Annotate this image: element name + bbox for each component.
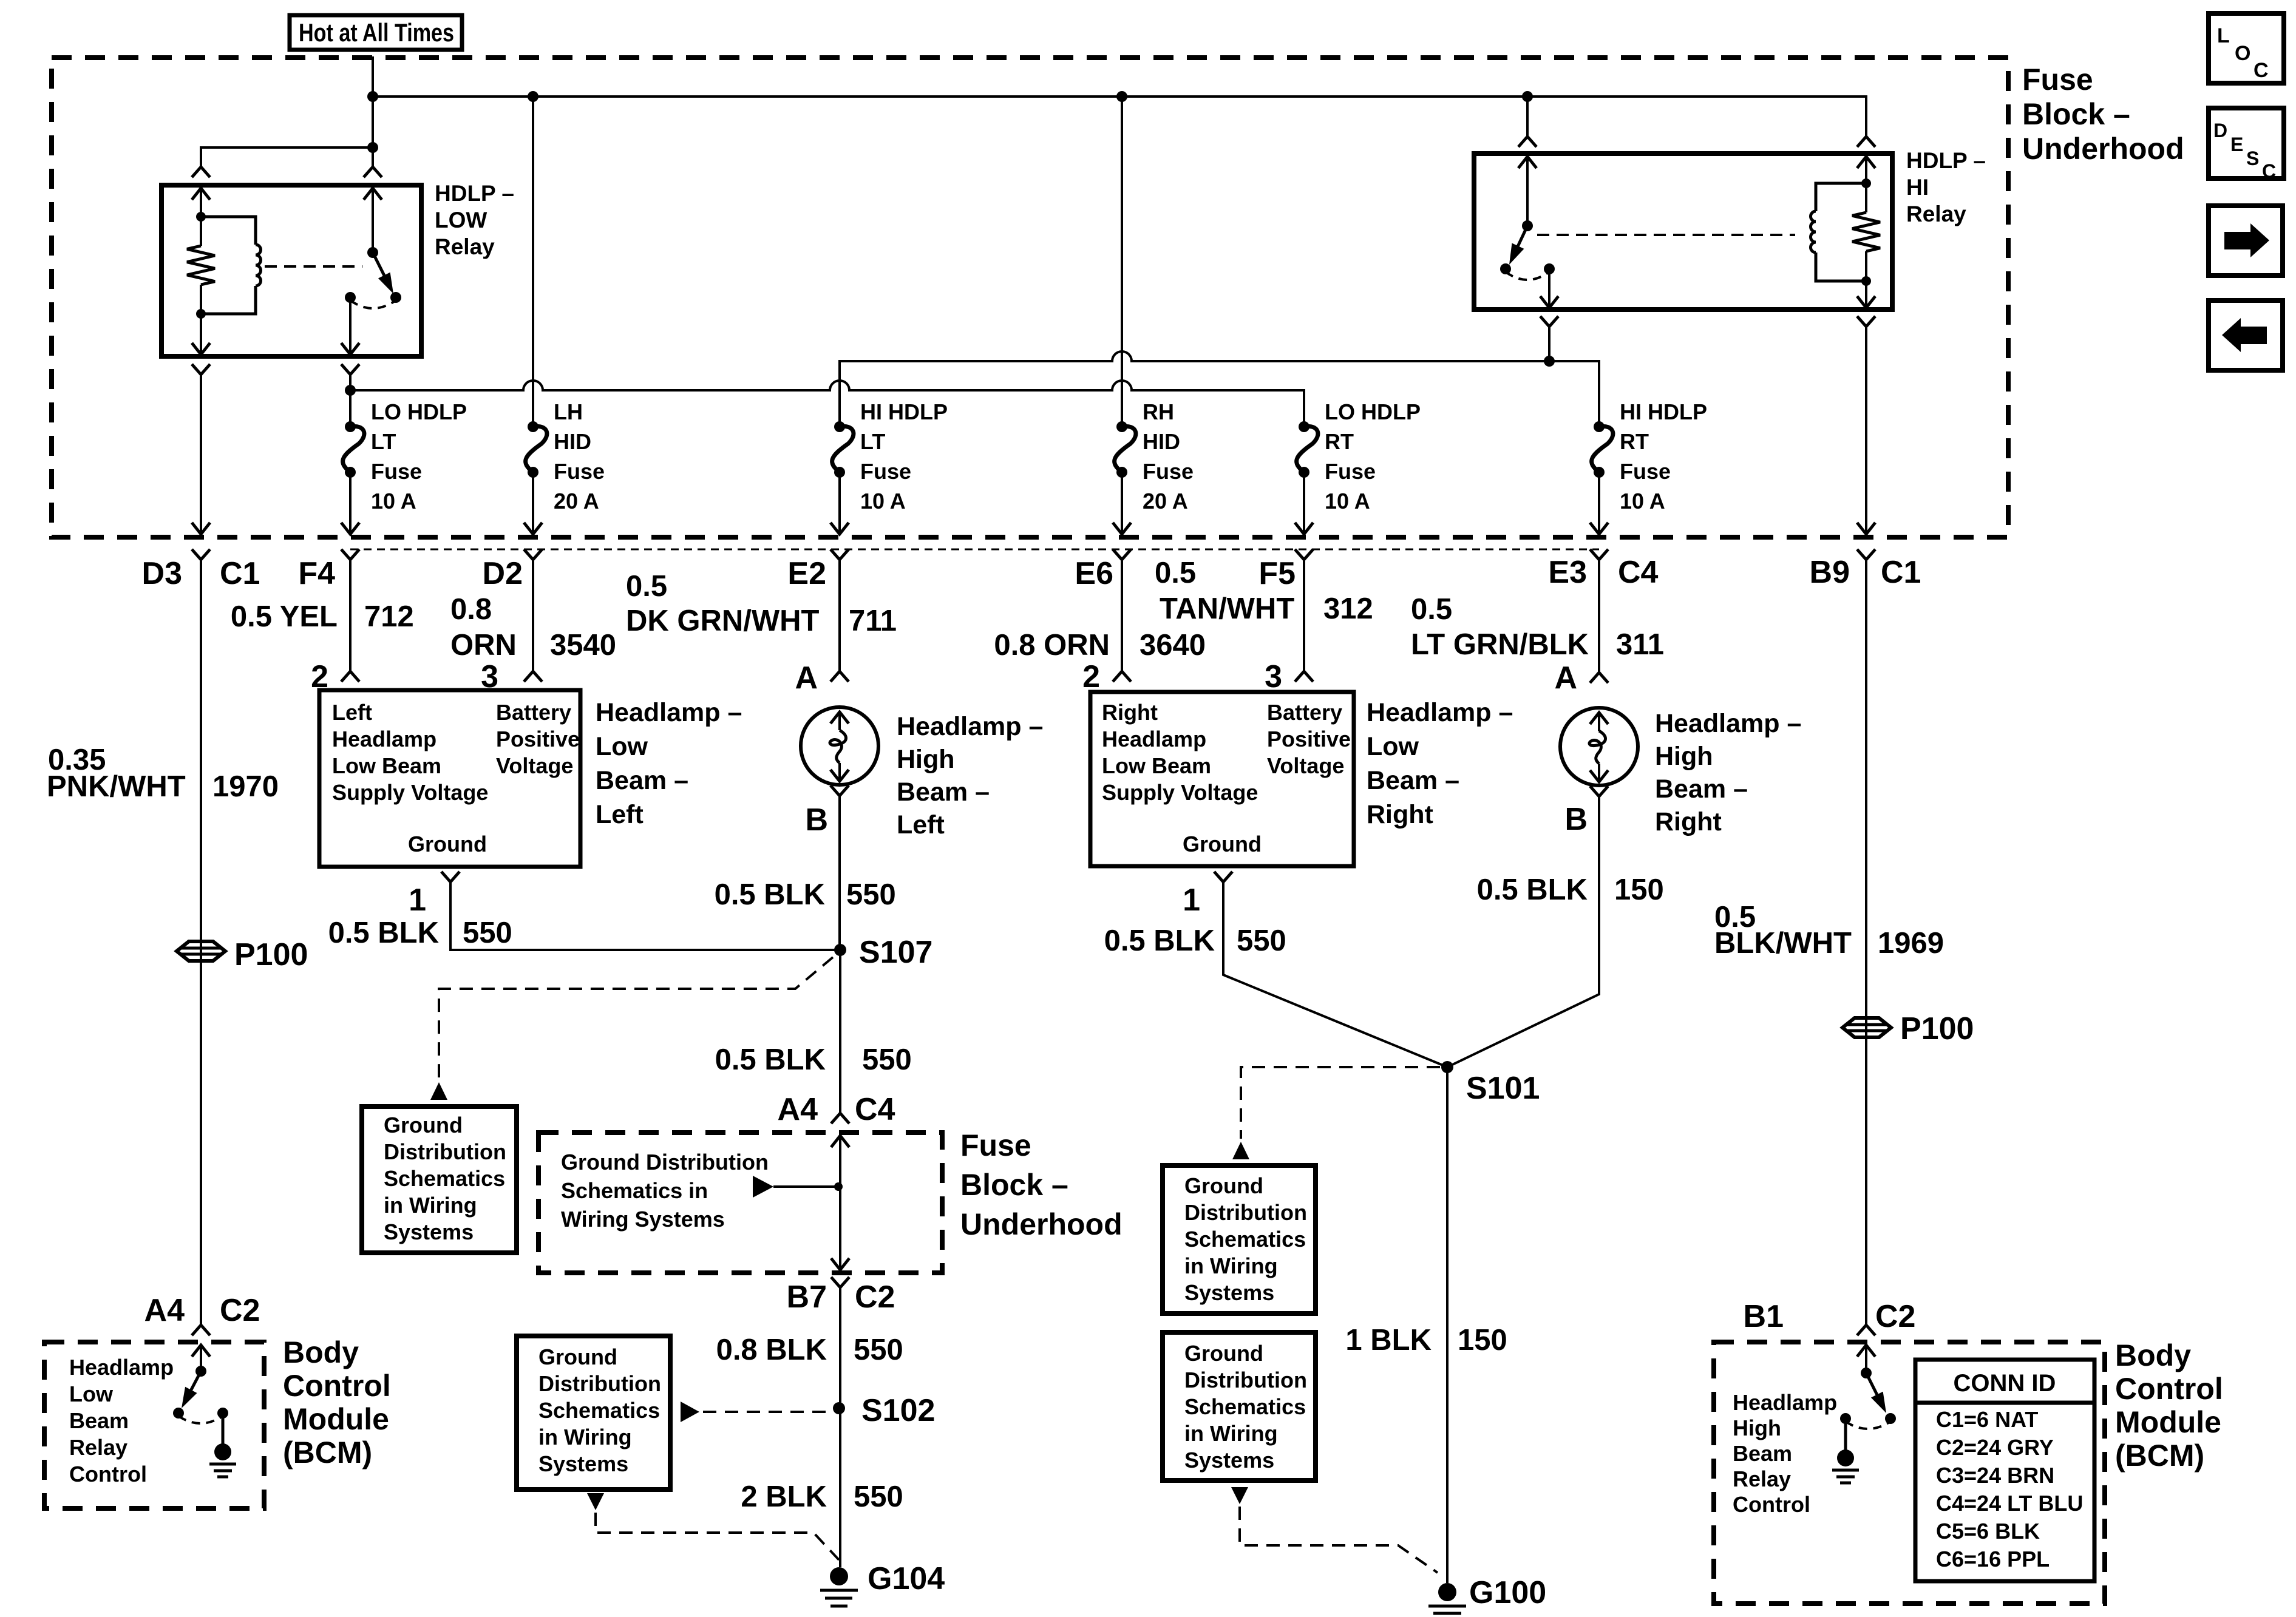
fuse: RH HID Fuse 20 A <box>1116 421 1127 432</box>
svg-text:Control: Control <box>283 1369 391 1403</box>
svg-text:Ground: Ground <box>408 832 487 856</box>
svg-text:Beam –: Beam – <box>596 766 688 795</box>
svg-text:C2: C2 <box>855 1280 895 1315</box>
svg-text:Relay: Relay <box>69 1435 127 1460</box>
splice S102 <box>833 1402 845 1414</box>
note box: Ground Distribution Schematics in Wiring Systems (G100) <box>1163 1332 1316 1480</box>
svg-text:A4: A4 <box>778 1092 818 1127</box>
svg-text:0.5 BLK: 0.5 BLK <box>1104 924 1215 957</box>
wire: E6 column to right headlamp pin 2 <box>1121 560 1123 671</box>
svg-text:1: 1 <box>409 883 426 918</box>
connector: left headlamp pin 2 <box>341 671 359 682</box>
node: feed junction to LH HID fuse <box>528 91 538 102</box>
label: Body Control Module (BCM) right <box>2115 1338 2223 1473</box>
lamp: Headlamp - High Beam - Left bulb <box>801 707 878 785</box>
svg-text:in Wiring: in Wiring <box>1184 1421 1278 1446</box>
svg-text:Schematics in: Schematics in <box>561 1178 708 1203</box>
svg-text:S102: S102 <box>861 1393 935 1428</box>
svg-text:0.5 BLK: 0.5 BLK <box>328 917 439 949</box>
svg-text:550: 550 <box>846 878 896 911</box>
svg-text:Schematics: Schematics <box>1184 1227 1306 1252</box>
node: junction at branch <box>367 142 378 153</box>
svg-text:HID: HID <box>554 429 591 454</box>
svg-text:Headlamp –: Headlamp – <box>596 698 742 727</box>
wire: LO HDLP bus with hops over E2 and E6 columns <box>350 381 1304 427</box>
svg-text:Control: Control <box>1733 1492 1810 1517</box>
svg-text:Ground Distribution: Ground Distribution <box>561 1150 769 1175</box>
connector: lamp pin B (left) <box>830 785 849 796</box>
svg-text:0.8 BLK: 0.8 BLK <box>716 1334 827 1366</box>
dashed reference: S101 to ground distribution note <box>1241 1067 1440 1139</box>
connector fork: F4 <box>341 549 359 560</box>
svg-text:Positive: Positive <box>1267 727 1351 751</box>
svg-text:3: 3 <box>1265 659 1282 694</box>
svg-text:C4: C4 <box>1618 555 1659 590</box>
relay K2: switch pivot <box>1522 220 1533 231</box>
relay K2 label <box>1906 148 1986 226</box>
svg-text:D2: D2 <box>483 556 523 591</box>
relay K2: coil return lead <box>1865 281 1867 307</box>
svg-text:Fuse: Fuse <box>1325 459 1376 484</box>
relay K2: switch output lead <box>1548 269 1550 307</box>
svg-text:10 A: 10 A <box>1620 489 1665 514</box>
svg-text:Distribution: Distribution <box>538 1371 661 1396</box>
wire: LO HDLP LT fuse drop <box>349 390 352 427</box>
svg-text:Schematics: Schematics <box>1184 1394 1306 1419</box>
svg-text:G100: G100 <box>1469 1575 1546 1610</box>
connector: relay K2 coil pin (top) <box>1857 137 1875 147</box>
svg-text:Beam –: Beam – <box>897 778 990 807</box>
svg-text:D: D <box>2213 120 2227 141</box>
relay K2: switch contact NO <box>1500 263 1511 274</box>
connector fork: E3/C4 <box>1590 549 1608 560</box>
connector fork: B9/C1 <box>1857 549 1875 560</box>
connector: left headlamp pin 3 <box>524 671 542 682</box>
svg-text:CONN ID: CONN ID <box>1954 1370 2056 1397</box>
reference arrow to ground distribution box <box>430 1082 447 1100</box>
svg-text:0.5: 0.5 <box>1155 557 1196 589</box>
svg-text:Beam –: Beam – <box>1655 775 1748 804</box>
svg-text:P100: P100 <box>234 937 308 972</box>
node: HI HDLP bus junction <box>1544 356 1555 367</box>
svg-text:0.5 BLK: 0.5 BLK <box>1477 873 1588 906</box>
svg-text:Systems: Systems <box>538 1451 628 1476</box>
connector: A4/C4 into underhood block <box>831 1113 849 1124</box>
svg-text:in Wiring: in Wiring <box>1184 1253 1278 1278</box>
svg-text:HI: HI <box>1906 175 1929 200</box>
label: Headlamp - Low Beam - Left <box>596 698 742 829</box>
svg-text:C: C <box>2254 59 2269 82</box>
svg-text:Beam –: Beam – <box>1367 766 1459 795</box>
svg-text:C2: C2 <box>1875 1299 1915 1334</box>
note box: Ground Distribution Schematics in Wiring Systems (S101) <box>1163 1165 1316 1314</box>
connector fork: D2 <box>524 549 542 560</box>
svg-text:10 A: 10 A <box>1325 489 1370 514</box>
svg-text:G104: G104 <box>868 1561 945 1596</box>
svg-text:Body: Body <box>283 1335 359 1369</box>
box: Left Headlamp (low beam) <box>319 690 580 867</box>
wire: RH HID fuse drop from feed bus <box>1121 97 1123 427</box>
relay K2: coil <box>1816 183 1866 211</box>
connector: left headlamp ground pin 1 <box>441 872 460 882</box>
node: LO HDLP bus junction <box>345 385 356 396</box>
connector: relay K1 switch output (bottom) <box>341 364 359 375</box>
svg-text:Ground: Ground <box>384 1113 463 1137</box>
svg-text:Block –: Block – <box>2022 97 2130 131</box>
wire: relay K1 output to LO HDLP bus <box>349 375 352 390</box>
reference arrow to S102 <box>681 1402 699 1422</box>
fuse: HI HDLP RT Fuse 10 A <box>1594 421 1605 432</box>
connector: lamp pin A (left) <box>830 671 849 682</box>
svg-text:Module: Module <box>2115 1405 2221 1439</box>
left BCM: ground stem <box>222 1413 225 1445</box>
svg-text:Low: Low <box>1367 732 1419 761</box>
svg-text:Low Beam: Low Beam <box>1102 753 1211 778</box>
svg-text:B9: B9 <box>1810 555 1850 590</box>
wire: E2 column to left high-beam lamp pin A <box>838 560 841 671</box>
connector: relay K2 coil return (bottom) <box>1857 316 1875 327</box>
wire: relay K2 output to HI HDLP bus <box>1548 327 1550 361</box>
dashed box: Body Control Module (BCM) right <box>1714 1342 2105 1604</box>
wire: S107 to fuse block ground feed (ckt 550) <box>839 950 841 1113</box>
svg-text:Headlamp –: Headlamp – <box>897 712 1043 741</box>
connector: into left BCM <box>192 1325 210 1335</box>
relay K1: coil pin arrow (85) <box>192 188 210 200</box>
svg-text:3540: 3540 <box>550 629 616 662</box>
relay K1: switch output lead <box>349 297 352 354</box>
svg-text:1970: 1970 <box>212 770 279 803</box>
wire: main feed bus from Hot drop to HDLP-HI relay <box>373 97 1866 137</box>
svg-text:3640: 3640 <box>1140 629 1206 662</box>
reference arrow into ground bus <box>753 1176 773 1198</box>
right BCM: ground symbol <box>1837 1449 1854 1466</box>
svg-text:HDLP –: HDLP – <box>435 181 514 206</box>
svg-text:Underhood: Underhood <box>960 1207 1123 1241</box>
relay K1: coil <box>201 217 256 245</box>
label: Headlamp - Low Beam - Right <box>1367 698 1513 829</box>
svg-text:LOW: LOW <box>435 208 487 232</box>
svg-text:Low: Low <box>596 732 648 761</box>
svg-text:Fuse: Fuse <box>860 459 911 484</box>
fuse: HI HDLP LT Fuse 10 A <box>834 421 845 432</box>
svg-text:Control: Control <box>2115 1372 2223 1406</box>
svg-text:Right: Right <box>1102 700 1158 725</box>
svg-text:Fuse: Fuse <box>960 1128 1031 1162</box>
inline connector P100 (right) <box>1843 1018 1891 1037</box>
relay K2: actuation dashed link <box>1537 234 1795 236</box>
relay K1: coil top node <box>196 212 206 222</box>
svg-text:311: 311 <box>1616 628 1664 661</box>
svg-text:1: 1 <box>1183 883 1200 918</box>
svg-text:Body: Body <box>2115 1338 2191 1372</box>
svg-text:Low: Low <box>69 1381 114 1406</box>
connector: into right BCM <box>1857 1325 1875 1335</box>
svg-text:C1: C1 <box>1881 555 1921 590</box>
connector: HDLP-LOW relay coil pin (top) <box>192 167 210 177</box>
dashed reference: S107 to ground distribution note <box>439 957 833 1079</box>
svg-text:Hot at All Times: Hot at All Times <box>299 18 454 47</box>
svg-text:2 BLK: 2 BLK <box>741 1480 827 1513</box>
right BCM: contact (ground) <box>1840 1413 1851 1424</box>
relay K2: resistor <box>1865 183 1867 212</box>
node: feed junction at Hot drop <box>367 91 378 102</box>
svg-text:B7: B7 <box>787 1280 827 1315</box>
relay K1 label <box>435 181 514 259</box>
relay K2: HDLP - HI relay switch drop <box>1526 97 1529 137</box>
reference arrow below center box to G100 <box>1231 1487 1248 1504</box>
svg-text:Systems: Systems <box>1184 1448 1274 1473</box>
wire: right headlamp ground to S101 <box>1223 882 1447 1067</box>
connector: HDLP-LOW relay switch pin (top) <box>364 167 382 177</box>
relay K1: switch arm <box>373 253 386 280</box>
svg-text:712: 712 <box>364 600 414 633</box>
connector: right headlamp ground pin 1 <box>1214 872 1232 882</box>
relay K1: switch contact NC <box>345 292 356 303</box>
svg-text:Headlamp: Headlamp <box>332 727 436 751</box>
svg-text:Underhood: Underhood <box>2022 132 2184 166</box>
svg-text:HID: HID <box>1143 429 1180 454</box>
wire: F4 column to left headlamp pin 2 <box>349 560 352 671</box>
svg-text:in Wiring: in Wiring <box>538 1425 632 1449</box>
power label box: Hot at All Times <box>290 15 462 50</box>
svg-text:PNK/WHT: PNK/WHT <box>47 770 186 803</box>
svg-text:TAN/WHT: TAN/WHT <box>1160 592 1294 625</box>
svg-text:F4: F4 <box>298 556 335 591</box>
svg-text:1969: 1969 <box>1878 927 1944 960</box>
svg-text:LT: LT <box>371 429 396 454</box>
svg-text:Battery: Battery <box>496 700 571 725</box>
svg-text:LH: LH <box>554 399 583 424</box>
connector: right headlamp pin 3 <box>1295 671 1313 682</box>
svg-text:150: 150 <box>1614 873 1664 906</box>
svg-text:Right: Right <box>1655 807 1722 836</box>
svg-text:Headlamp: Headlamp <box>1102 727 1206 751</box>
wire: left high-beam lamp ground (ckt 550) to S107 <box>838 796 841 949</box>
svg-text:DK GRN/WHT: DK GRN/WHT <box>626 605 820 637</box>
svg-text:B1: B1 <box>1744 1299 1784 1334</box>
connector fork: E6 <box>1113 549 1131 560</box>
right BCM: pin function label <box>1733 1390 1837 1517</box>
connector fork: E2 <box>830 549 849 560</box>
svg-text:Right: Right <box>1367 800 1433 829</box>
svg-text:Systems: Systems <box>1184 1280 1274 1305</box>
left BCM: contact (ground) <box>217 1408 228 1419</box>
wire: relay K2 coil return down to block edge (ckt 1969) <box>1865 327 1867 534</box>
right BCM: ground stem <box>1844 1419 1847 1451</box>
connector: B7/C2 out of underhood block <box>831 1277 849 1287</box>
inline connector P100 (left) <box>177 941 225 961</box>
svg-text:Fuse: Fuse <box>1143 459 1194 484</box>
node: feed junction to HDLP-HI relay switch <box>1522 91 1533 102</box>
svg-text:(BCM): (BCM) <box>2115 1439 2204 1473</box>
svg-text:Relay: Relay <box>1733 1466 1791 1491</box>
svg-text:S107: S107 <box>859 935 932 970</box>
left BCM: ground symbol <box>214 1443 231 1460</box>
svg-text:HI HDLP: HI HDLP <box>1620 399 1707 424</box>
svg-text:S101: S101 <box>1466 1071 1540 1106</box>
right BCM: driver pivot <box>1861 1368 1872 1378</box>
connector: right headlamp pin 2 <box>1113 671 1131 682</box>
relay K1: coil bottom node <box>196 309 206 319</box>
svg-text:Battery: Battery <box>1267 700 1342 725</box>
label: Fuse Block - Underhood (lower) <box>960 1128 1123 1241</box>
wire: E3 column to right high-beam lamp pin A <box>1598 560 1600 673</box>
svg-text:Supply Voltage: Supply Voltage <box>1102 780 1258 805</box>
svg-text:10 A: 10 A <box>860 489 906 514</box>
svg-text:Fuse: Fuse <box>371 459 422 484</box>
wire: F5 column to right headlamp pin 3 <box>1303 560 1305 671</box>
nav icon: forward arrow box <box>2209 206 2283 276</box>
svg-text:550: 550 <box>862 1043 912 1076</box>
svg-text:LO HDLP: LO HDLP <box>371 399 467 424</box>
dashed box: Fuse Block - Underhood (ground bus) <box>538 1133 942 1273</box>
ground G104 <box>830 1567 848 1585</box>
svg-text:Fuse: Fuse <box>2022 63 2093 97</box>
connector: relay K2 switch output (bottom) <box>1540 316 1558 327</box>
svg-text:Headlamp –: Headlamp – <box>1655 709 1801 738</box>
relay K2: switch contact NC <box>1544 263 1555 274</box>
svg-text:Voltage: Voltage <box>1267 753 1344 778</box>
relay K2: HDLP - HI Relay box <box>1474 154 1892 310</box>
svg-text:Relay: Relay <box>1906 202 1966 226</box>
svg-text:Low Beam: Low Beam <box>332 753 441 778</box>
nav icon: back arrow box <box>2209 300 2283 370</box>
svg-text:Beam: Beam <box>69 1408 129 1433</box>
svg-text:BLK/WHT: BLK/WHT <box>1714 927 1852 960</box>
wire: Hot at All Times feed drop (net B+) <box>372 56 374 167</box>
svg-text:550: 550 <box>854 1480 903 1513</box>
connector fork: D3/C1 <box>192 549 210 560</box>
connector: lamp pin B (right) <box>1590 786 1608 796</box>
svg-text:C2=24 GRY: C2=24 GRY <box>1936 1435 2054 1460</box>
svg-text:0.5 YEL: 0.5 YEL <box>231 600 338 633</box>
relay K2: switch arm <box>1516 226 1527 250</box>
wire: ground feed through underhood block <box>831 1136 849 1147</box>
svg-text:Left: Left <box>897 810 945 839</box>
svg-text:LO HDLP: LO HDLP <box>1325 399 1421 424</box>
wire: branch to HDLP-LOW relay coil pin <box>201 147 373 167</box>
connector: lamp pin A (right) <box>1590 673 1608 683</box>
svg-text:Distribution: Distribution <box>384 1139 506 1164</box>
wire: B7 to S102 to G104 (ckt 550) <box>839 1287 841 1567</box>
svg-text:Distribution: Distribution <box>1184 1368 1307 1392</box>
wire: left headlamp ground to S107 <box>450 882 840 950</box>
svg-text:20 A: 20 A <box>554 489 599 514</box>
svg-text:C5=6 BLK: C5=6 BLK <box>1936 1519 2040 1544</box>
connector: relay K1 coil return (bottom) <box>192 364 210 375</box>
svg-text:High: High <box>897 745 955 774</box>
svg-text:C4: C4 <box>855 1092 895 1127</box>
svg-text:C4=24 LT BLU: C4=24 LT BLU <box>1936 1491 2083 1516</box>
svg-text:P100: P100 <box>1900 1011 1974 1046</box>
right BCM: contact (relay control) <box>1885 1413 1896 1424</box>
svg-text:Ground: Ground <box>1184 1341 1263 1366</box>
svg-text:0.5: 0.5 <box>626 570 667 603</box>
svg-text:Systems: Systems <box>384 1219 474 1244</box>
label: Headlamp - High Beam - Left <box>897 712 1043 839</box>
relay K1: resistor <box>200 217 202 246</box>
svg-text:1 BLK: 1 BLK <box>1345 1324 1432 1357</box>
dashed box: Body Control Module (BCM) left <box>44 1342 264 1508</box>
nav icon: DESC box <box>2209 108 2284 178</box>
svg-text:in Wiring: in Wiring <box>384 1193 477 1218</box>
svg-text:0.8 ORN: 0.8 ORN <box>994 629 1110 662</box>
relay K2: contact throw dashed arc <box>1506 272 1549 280</box>
relay K2: coil pin arrow <box>1857 157 1875 168</box>
svg-text:RT: RT <box>1620 429 1649 454</box>
svg-text:O: O <box>2235 42 2250 65</box>
svg-text:Schematics: Schematics <box>384 1166 505 1191</box>
wire: D3 column down to left BCM (ckt 1970) <box>200 560 202 1325</box>
svg-text:550: 550 <box>854 1334 903 1366</box>
table: CONN ID <box>1915 1360 2094 1581</box>
relay K2: switch common pin arrow <box>1518 157 1537 168</box>
svg-text:E6: E6 <box>1075 556 1113 591</box>
relay K2: coil bottom node <box>1861 276 1871 286</box>
svg-text:550: 550 <box>463 917 512 949</box>
note box: Ground Distribution Schematics in Wiring Systems (S102) <box>517 1336 670 1490</box>
svg-text:B: B <box>1564 802 1588 837</box>
relay K1: coil return lead <box>200 314 202 354</box>
relay K1: switch pivot <box>367 247 378 258</box>
svg-text:Module: Module <box>283 1402 389 1436</box>
left BCM: contact (relay control) <box>173 1408 184 1419</box>
connector fork: F5 <box>1295 549 1313 560</box>
svg-text:E3: E3 <box>1548 555 1587 590</box>
fuse F4: LO HDLP LT Fuse 10 A <box>345 421 356 432</box>
svg-text:C2: C2 <box>220 1293 260 1328</box>
svg-text:Wiring Systems: Wiring Systems <box>561 1207 725 1232</box>
relay K1: switch contact NO <box>390 292 401 303</box>
svg-text:High: High <box>1733 1415 1781 1440</box>
svg-text:C6=16 PPL: C6=16 PPL <box>1936 1547 2050 1571</box>
svg-text:Headlamp: Headlamp <box>69 1355 174 1380</box>
svg-text:0.5 BLK: 0.5 BLK <box>715 878 825 911</box>
wire: relay K1 coil return down to block edge (ckt 1970) <box>200 375 202 534</box>
fuse: LH HID Fuse 20 A <box>528 421 538 432</box>
svg-text:RH: RH <box>1143 399 1174 424</box>
svg-text:A: A <box>1554 660 1577 696</box>
svg-text:(BCM): (BCM) <box>283 1436 372 1470</box>
svg-text:L: L <box>2217 24 2230 47</box>
nav icon: LOC box <box>2209 13 2284 83</box>
svg-text:S: S <box>2246 147 2259 169</box>
svg-text:Schematics: Schematics <box>538 1398 660 1423</box>
svg-text:550: 550 <box>1237 924 1286 957</box>
splice S101 <box>1441 1061 1453 1073</box>
svg-text:ORN: ORN <box>450 629 517 662</box>
svg-text:C3=24 BRN: C3=24 BRN <box>1936 1463 2054 1488</box>
fuse block underhood: dashed border <box>52 58 2008 537</box>
node: ground bus tap <box>834 1182 843 1191</box>
relay K1: contact throw dashed arc <box>350 300 396 308</box>
svg-text:Distribution: Distribution <box>1184 1200 1307 1225</box>
left BCM: pin function label <box>69 1355 174 1486</box>
svg-text:0.8: 0.8 <box>450 593 492 626</box>
splice S107 <box>834 944 846 956</box>
svg-text:150: 150 <box>1458 1324 1507 1357</box>
node: feed junction to RH HID fuse <box>1116 91 1127 102</box>
svg-text:312: 312 <box>1323 592 1373 625</box>
relay K2: coil top node <box>1861 178 1871 188</box>
svg-text:Headlamp: Headlamp <box>1733 1390 1837 1415</box>
svg-text:LT GRN/BLK: LT GRN/BLK <box>1411 628 1589 661</box>
box: Right Headlamp (low beam) <box>1090 692 1354 866</box>
svg-text:0.5 BLK: 0.5 BLK <box>715 1043 826 1076</box>
label: Headlamp - High Beam - Right <box>1655 709 1801 836</box>
right BCM: input arrow <box>1857 1345 1875 1357</box>
left BCM: throw dashed arc <box>178 1416 223 1423</box>
